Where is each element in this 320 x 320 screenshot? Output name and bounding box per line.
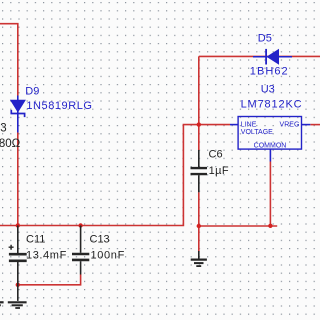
node junction C6 ground <box>197 224 201 228</box>
capacitor C11 13.4mF (polarized) <box>9 226 67 301</box>
wire bottom bus left, riser and jog to input node <box>0 125 199 226</box>
svg-text:D5: D5 <box>258 33 272 45</box>
node junction C11 bottom <box>16 283 20 287</box>
wire D9 cathode down to bottom bus <box>17 133 19 226</box>
wire C6 bottom to ground node and right stub <box>199 192 277 251</box>
ground partial at left edge <box>0 302 4 305</box>
resistor R3 180&#937; (cut off at left edge) <box>0 123 21 150</box>
node junction C11 top <box>16 223 20 227</box>
svg-text:VOLTAGE: VOLTAGE <box>241 129 273 136</box>
op-amp U3 LM7812KC voltage regulator <box>230 83 310 161</box>
svg-text:R3: R3 <box>0 123 7 135</box>
ground below C6 <box>191 251 207 266</box>
svg-text:1µF: 1µF <box>209 165 229 177</box>
node junction C13 top <box>78 223 82 227</box>
wire node down to C6 <box>198 125 200 150</box>
ground below C11 <box>8 302 27 308</box>
svg-text:C11: C11 <box>26 233 45 245</box>
wire C13 bottom link to C11 bottom <box>18 275 81 285</box>
node junction COMMON bus <box>268 224 272 228</box>
svg-text:C6: C6 <box>209 148 223 160</box>
wire node to U3 LINE pin <box>199 124 230 126</box>
svg-text:13.4mF: 13.4mF <box>26 249 67 261</box>
svg-text:COMMON: COMMON <box>254 143 287 150</box>
svg-text:D9: D9 <box>25 85 39 97</box>
diode D9 1N5819RLG <box>11 85 93 132</box>
capacitor C6 1uF <box>191 148 229 192</box>
wire U3 COMMON pin down to ground bus <box>269 162 271 226</box>
svg-text:U3: U3 <box>261 83 275 95</box>
wire top-left horizontal and down to D9 <box>0 24 18 96</box>
wire input vertical up to top corner <box>198 56 200 124</box>
svg-text:LM7812KC: LM7812KC <box>241 98 303 110</box>
svg-text:100nF: 100nF <box>91 249 125 261</box>
diode D5 1BH62 <box>250 33 292 78</box>
node junction U3 input <box>197 122 201 126</box>
svg-text:180Ω: 180Ω <box>0 138 21 150</box>
capacitor C13 100nF <box>72 226 125 275</box>
wire U3 VREG output to right edge <box>310 124 320 126</box>
svg-text:1BH62: 1BH62 <box>250 66 289 78</box>
wire top horizontal through D5 to right edge <box>199 55 320 57</box>
svg-text:C13: C13 <box>90 233 110 245</box>
svg-text:LINE: LINE <box>241 121 257 128</box>
svg-text:1N5819RLG: 1N5819RLG <box>26 100 92 112</box>
svg-text:VREG: VREG <box>280 121 300 128</box>
